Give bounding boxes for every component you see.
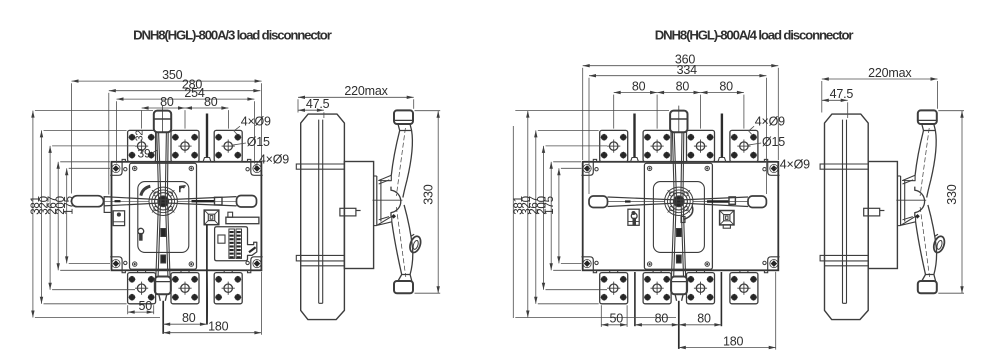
title left drawing [133,28,332,43]
3P bottom terminal pad 3 [214,270,242,304]
3P side bottom flange [377,216,392,225]
4P side hub boss [896,187,926,217]
3P side lower terminal band [296,255,344,265]
svg-text:80: 80 [697,312,711,326]
4P dim 180 bottom [679,272,776,350]
3P corner bracket bottom-left [110,257,127,273]
4P corner bracket top-left [581,159,598,175]
4P operating hub [665,187,693,215]
svg-text:80: 80 [655,312,669,326]
3P lever knob up [154,106,171,133]
svg-text:180: 180 [208,320,229,334]
4P dim 80 a [614,79,657,128]
svg-text:DNH8(HGL)-800A/3 load disconne: DNH8(HGL)-800A/3 load disconnector [133,28,332,43]
4P side handle bracket [897,176,904,226]
svg-text:4×Ø9: 4×Ø9 [755,115,785,129]
4P corner bracket bottom-left [581,257,598,273]
4P interlock rod top left [631,114,639,162]
3P aux hook stripe [249,247,256,252]
svg-text:80: 80 [632,79,646,93]
4P panel screw TL [647,166,651,170]
3P label 32 [134,130,146,142]
3P dim 280 [109,78,261,195]
4P side bottom flange [901,216,916,225]
4P dim 80 c [701,79,744,128]
3P dim 80 right [185,95,228,129]
4P dim 80 bottom right [679,312,722,327]
3P side dim 47.5 [298,97,330,118]
3P handlebar dark segment [192,200,215,202]
4P handlebar right grip [748,196,766,208]
4P handlebar clip [729,197,735,204]
3P enclosure body [112,162,262,270]
svg-text:Ø15: Ø15 [762,135,785,149]
3P keyhole [138,228,144,240]
4P side handle knob bottom [918,281,937,293]
4P side mechanism box [868,162,897,269]
4P bottom terminal pad 3 [687,270,715,304]
svg-text:Ø15: Ø15 [247,135,270,149]
3P label 39 [138,147,158,161]
3P panel cover plate [138,182,189,253]
4P side handle neck top [922,124,936,131]
4P padlock button [720,211,734,229]
4P lever shaft block B [676,255,681,263]
3P side handle knob top [394,110,413,124]
3P panel screw BR [189,262,193,266]
3P side dim 220max [298,84,414,112]
svg-text:175: 175 [64,196,76,215]
svg-text:DNH8(HGL)-800A/4 load disconne: DNH8(HGL)-800A/4 load disconnector [655,28,854,43]
3P dim 320 [38,130,126,303]
svg-text:80: 80 [182,311,196,325]
3P side column shaft [319,120,323,304]
svg-text:80: 80 [719,79,733,93]
svg-text:180: 180 [723,334,744,348]
4P dim 80 b [657,79,700,128]
4P top terminal pad 4 [730,130,758,161]
4P keyhole [631,213,637,225]
3P r mark [180,186,186,192]
3P side upper terminal band [296,164,344,169]
4P lever shaft up [672,132,683,204]
svg-text:220max: 220max [868,66,912,80]
4P label 4xO9 lower [775,158,810,172]
3P label O15 [232,135,270,149]
3P corner bracket bottom-right [246,257,263,273]
3P side handle upper arm [391,128,412,198]
4P enclosure body [583,162,779,270]
4P dim 381 [513,111,676,318]
4P side dim 220max [822,66,938,113]
4P handlebar left dark mark [625,200,631,202]
4P side handle neck bottom [922,275,936,282]
4P panel screw BL [647,262,651,266]
3P top terminal pad 2 [171,130,199,161]
3P handlebar left dark mark [115,200,121,202]
3P aux inner square [218,235,225,243]
svg-text:50: 50 [139,299,153,313]
4P bottom terminal pad 1 [600,270,628,304]
4P panel screw TR [705,166,709,170]
4P outer guide line [512,126,514,318]
3P aux wire [207,225,208,324]
title right drawing [655,28,854,43]
3P dim 267 [47,146,135,290]
3P wall box [113,211,124,226]
svg-text:334: 334 [677,63,698,77]
3P side padlock hasp [408,234,423,254]
4P dim 334 [589,63,766,194]
4P side diamond mark [915,214,920,219]
3P side handle bracket [374,176,381,226]
4P side dim 330 [938,111,964,294]
3P dim 381 [30,111,160,318]
4P lever tip down [675,294,683,301]
4P arc hook [681,206,693,223]
3P lever knob down [155,277,171,295]
3P aux hatched combs [229,229,242,258]
3P dim 254 [117,86,255,163]
4P axis line bottom [678,301,680,349]
3P lever shaft block B [161,255,166,263]
3P side box latch [340,208,361,216]
svg-text:32: 32 [134,130,146,142]
4P interlock rod bottom right [720,272,722,326]
3P dim 350 [72,68,262,194]
4P dim 80 bottom left [635,312,679,327]
3P side hub boss [373,187,403,217]
svg-text:80: 80 [160,95,174,109]
svg-text:47.5: 47.5 [830,87,854,101]
3P side dim 330 [415,111,441,294]
4P panel cover plate [653,182,704,253]
3P mechanism panel [130,163,197,269]
3P terminal strip [226,212,259,224]
svg-text:350: 350 [162,68,183,82]
3P arc mark [141,186,151,195]
4P handlebar left grip [589,196,608,208]
3P side diamond mark [391,214,396,219]
3P handlebar right grip [237,196,257,208]
3P handlebar left grip [72,196,104,207]
4P side dim 47.5 [822,87,854,118]
svg-text:330: 330 [945,184,959,205]
4P lever shaft block A [676,229,681,237]
3P side handle neck bottom [398,275,412,282]
3P side handle neck top [398,124,412,131]
4P dim 267 [529,146,607,290]
3P top terminal pad 3 [214,130,242,161]
4P corner bracket top-right [763,159,780,175]
3P dim 180 bottom [163,272,261,335]
4P side handle knob top [918,110,937,124]
4P lever knob down [671,277,687,295]
4P label 4xO9 upper [749,115,786,135]
4P dim 320 [521,130,599,303]
3P operating hub [149,187,177,215]
3P handlebar left blade [104,197,164,206]
3P dim 80 bottom [163,311,207,326]
3P side mechanism box [344,162,373,269]
3P side handle knob bottom [394,281,413,293]
3P side pole column [301,114,345,320]
4P side padlock hasp [932,234,947,254]
svg-text:254: 254 [184,86,205,100]
4P mechanism panel [644,163,712,269]
3P lever shaft down [156,198,170,277]
3P interlock rod top [203,114,211,162]
3P panel screw TR [189,166,193,170]
svg-text:80: 80 [676,79,690,93]
3P handlebar right blade [163,197,236,206]
4P top terminal pad 1 [600,130,628,161]
4P bottom terminal pad 4 [730,270,758,304]
3P axis line bottom [162,301,164,334]
3P corner bracket top-right [246,159,263,175]
3P lever shaft block A [161,229,166,237]
4P side box latch [864,208,885,216]
svg-text:47.5: 47.5 [306,97,330,111]
svg-text:4×Ø9: 4×Ø9 [780,158,810,172]
svg-text:50: 50 [609,312,623,326]
3P top terminal pad 1 [128,130,156,161]
4P corner bracket bottom-right [763,257,780,273]
4P top terminal pad 3 [687,130,715,161]
3P padlock button [204,210,219,225]
3P aux block outline [215,227,257,261]
3P handlebar clip [215,197,223,205]
3P interlock rod bottom [206,225,208,325]
4P wall box [628,209,639,225]
svg-text:80: 80 [204,95,218,109]
3P label 4xO9 lower [255,153,289,168]
4P side handle lower arm [916,205,937,277]
3P dim 80 left [142,95,185,129]
3P lever tip down [159,294,167,301]
svg-text:220max: 220max [344,84,388,98]
3P dim 200 [55,162,110,270]
4P dim 360 [583,52,779,160]
4P side upper terminal band [820,164,868,169]
3P bottom terminal pad 2 [171,270,199,304]
4P lever knob up [670,106,687,133]
3P dim 50 [128,299,154,314]
4P side top flange [903,175,916,184]
3P side handle lower arm [392,205,413,277]
3P label 4xO9 upper [234,115,271,135]
4P side column shaft [843,120,847,304]
svg-text:39: 39 [138,147,151,161]
4P dim 200 [536,162,581,270]
4P side handle upper arm [915,128,936,198]
3P side top flange [379,175,392,184]
3P panel screw TL [133,166,137,170]
4P top terminal pad 2 [643,130,671,161]
4P bottom terminal pad 2 [643,270,671,304]
4P handlebar dark segment [707,200,729,202]
4P interlock rod bottom left [634,272,636,326]
4P side pole column [825,114,869,320]
4P dim 175 [544,168,582,263]
4P dim 50 [601,305,627,327]
4P lever shaft down [672,198,686,277]
svg-text:4×Ø9: 4×Ø9 [241,115,271,129]
3P dim 175 [64,168,110,263]
4P handlebar right blade [679,197,748,207]
svg-text:330: 330 [421,184,435,205]
svg-text:175: 175 [544,196,556,215]
4P interlock rod top right [718,114,726,162]
3P body left clevis [104,197,111,213]
4P panel screw BR [705,262,709,266]
4P label O15 [747,135,785,149]
3P bottom terminal pad 1 [128,270,156,304]
4P side lower terminal band [820,255,868,265]
4P handlebar left blade [608,197,679,207]
3P panel screw BL [133,262,137,266]
3P corner bracket top-left [110,159,127,175]
3P lever shaft up [157,132,168,204]
svg-text:4×Ø9: 4×Ø9 [259,153,289,167]
